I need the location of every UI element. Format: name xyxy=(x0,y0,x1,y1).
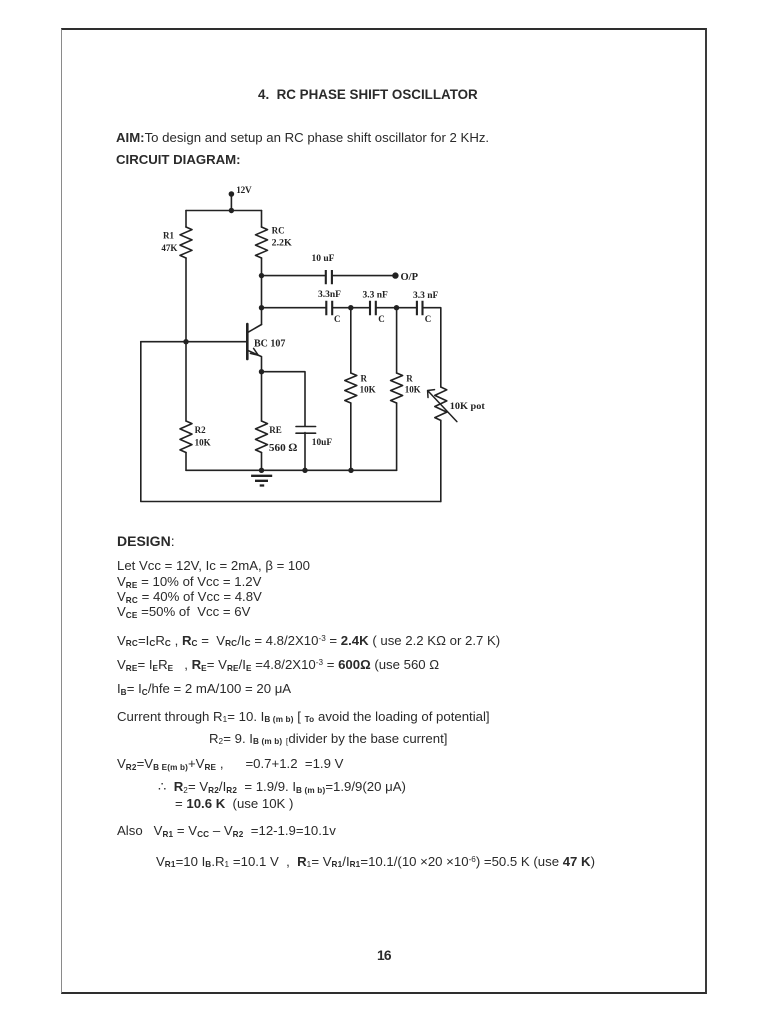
svg-text:R: R xyxy=(406,374,413,384)
svg-text:R: R xyxy=(361,374,368,384)
svg-text:RC: RC xyxy=(272,226,285,236)
svg-text:3.3 nF: 3.3 nF xyxy=(413,291,439,301)
svg-text:R1: R1 xyxy=(163,230,174,240)
svg-text:3.3 nF: 3.3 nF xyxy=(363,291,389,301)
svg-text:C: C xyxy=(425,314,432,324)
svg-text:10K: 10K xyxy=(195,438,211,448)
svg-text:10K pot: 10K pot xyxy=(450,401,485,411)
svg-text:2.2K: 2.2K xyxy=(272,237,292,247)
svg-text:10uF: 10uF xyxy=(312,437,333,447)
svg-text:12V: 12V xyxy=(236,185,252,195)
svg-text:560 Ω: 560 Ω xyxy=(269,442,298,454)
svg-text:C: C xyxy=(334,314,341,324)
svg-text:O/P: O/P xyxy=(401,272,419,283)
svg-text:47K: 47K xyxy=(161,243,177,253)
svg-text:R2: R2 xyxy=(195,425,206,435)
svg-text:3.3nF: 3.3nF xyxy=(318,290,341,300)
svg-text:10K: 10K xyxy=(360,385,376,395)
svg-text:10K: 10K xyxy=(405,385,421,395)
svg-text:C: C xyxy=(378,314,385,324)
svg-text:10 uF: 10 uF xyxy=(312,254,335,264)
svg-text:BC 107: BC 107 xyxy=(254,339,285,350)
svg-text:RE: RE xyxy=(269,425,282,435)
